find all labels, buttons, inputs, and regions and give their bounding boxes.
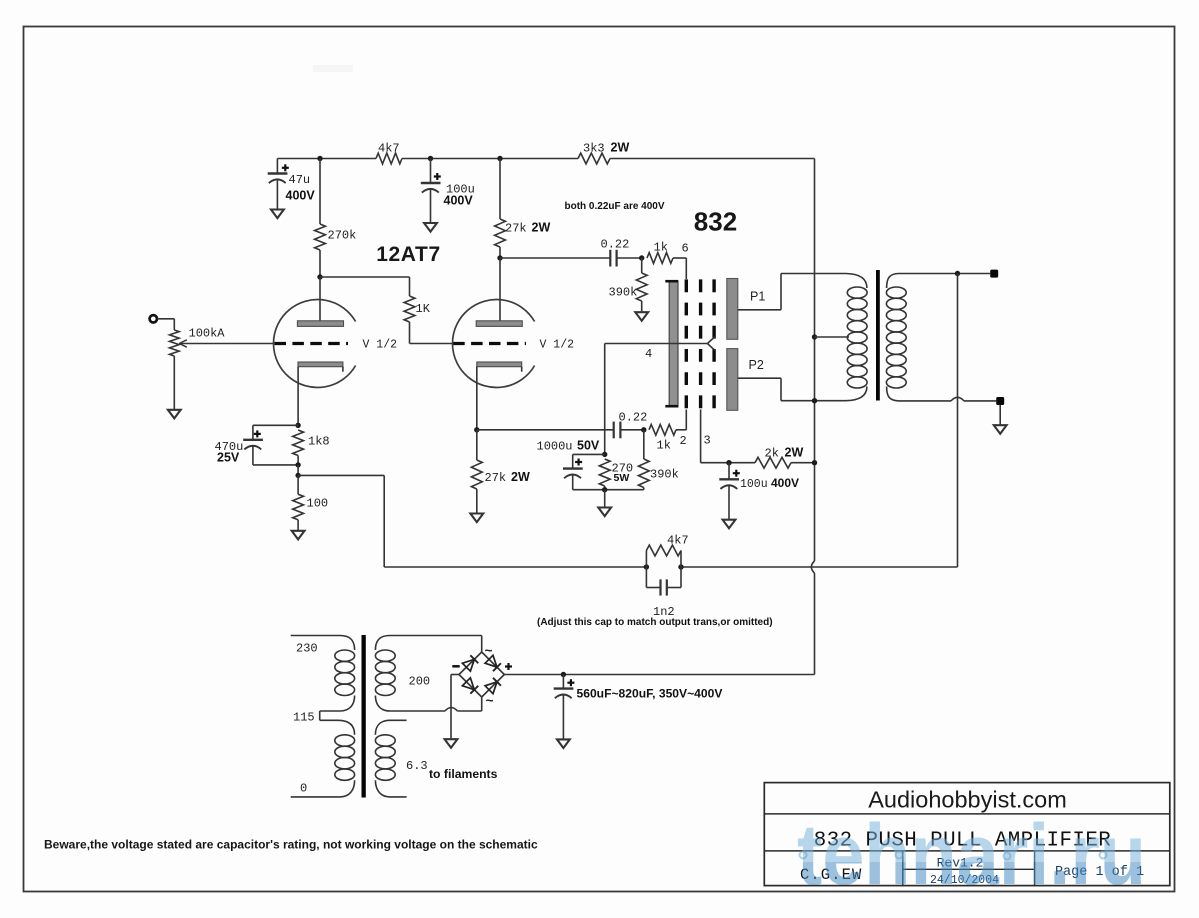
title C.G.EW	[800, 866, 862, 884]
node junction 1k8/470u bottom	[295, 462, 300, 467]
wire feedback tap to riser	[298, 474, 384, 476]
wire B+ vertical riser	[811, 159, 814, 675]
svg-text:to filaments: to filaments	[429, 767, 498, 781]
resistor 270k (V1a anode load)	[315, 159, 357, 278]
svg-text:V 1/2: V 1/2	[540, 338, 575, 351]
wire 0.22 to 1k junction (bottom)	[620, 429, 643, 431]
label 0	[300, 782, 307, 796]
label ac tilde top	[485, 645, 493, 660]
resistor 1k (grid stopper pin6)	[647, 240, 686, 263]
node junction 0.22/1k/390k (bottom)	[641, 427, 646, 432]
wire junction to 1K	[320, 276, 410, 278]
svg-text:~: ~	[485, 645, 493, 660]
wire feedback from secondary down	[957, 274, 959, 568]
svg-text:1k: 1k	[654, 240, 668, 254]
capacitor 1000u 50V (832 cathode bypass)	[563, 454, 605, 489]
power transformer primary winding 115-0	[335, 735, 355, 780]
power transformer primary winding 230-115	[335, 650, 355, 695]
node junction cathode bias top	[602, 452, 607, 457]
node junction 270k/anode/1K	[317, 274, 322, 279]
wire 1k8 to feedback node	[297, 465, 299, 476]
resistor 4k7 (B+ dropper)	[376, 142, 402, 164]
wire pin 4 (grid feed) with fork	[605, 337, 715, 351]
capacitor 1n2 (feedback comp)	[646, 567, 681, 619]
diode D2 (top-right arm)	[485, 655, 501, 671]
ground (100u)	[424, 223, 437, 232]
tube 832 beam plates column 3 (dashed)	[712, 279, 715, 409]
label V 1/2 (second half)	[540, 338, 575, 351]
diode D4 (bottom-right arm)	[485, 678, 501, 694]
note beware voltage rating	[44, 837, 538, 851]
wire feedback riser down	[383, 475, 385, 567]
svg-text:390k: 390k	[650, 468, 679, 482]
output transformer secondary winding	[886, 274, 906, 401]
ground (100 resistor)	[292, 531, 305, 540]
label minus	[452, 665, 459, 668]
svg-text:5W: 5W	[614, 472, 630, 484]
capacitor 0.22 (top coupling)	[601, 237, 630, 266]
power transformer primary bottom lead	[291, 780, 355, 797]
note both 0.22uF are 400V	[565, 201, 665, 212]
ground (screen cap)	[723, 520, 736, 529]
svg-text:100: 100	[307, 497, 329, 511]
wire input to pot	[157, 319, 174, 330]
node junction feedback tap	[295, 473, 300, 478]
ground (reservoir cap)	[557, 739, 570, 748]
input terminal	[150, 315, 157, 322]
wire center tap	[815, 336, 850, 338]
title Audiohobbyist.com	[868, 787, 1067, 813]
tube V1a envelope (12AT7 first half)	[273, 299, 355, 387]
power transformer filament winding 6.3V	[375, 735, 395, 780]
power transformer HT secondary top lead	[375, 636, 481, 651]
svg-text:(Adjust this cap to match outp: (Adjust this cap to match output trans,o…	[537, 617, 773, 628]
resistor 2k 2W (screen feed)	[755, 445, 815, 468]
node junction screen feed/B+	[812, 460, 817, 465]
resistor 4k7 (feedback)	[646, 534, 688, 567]
svg-text:1k8: 1k8	[308, 435, 330, 449]
diode D3 (left-bottom arm)	[462, 678, 478, 694]
wire B+ rail segment 1	[277, 158, 376, 160]
diode D1 (left-top arm)	[462, 655, 478, 671]
label plus (bridge)	[505, 663, 512, 670]
output transformer primary winding	[846, 274, 867, 401]
label to filaments	[429, 767, 498, 781]
svg-text:230: 230	[296, 642, 318, 656]
title Rev1.2	[937, 856, 984, 871]
resistor 390k (upper grid leak)	[609, 258, 648, 312]
ground (47u)	[271, 210, 284, 219]
wire bridge minus to ground	[451, 675, 459, 740]
svg-text:2W: 2W	[611, 141, 630, 155]
svg-text:0.22: 0.22	[619, 410, 648, 424]
svg-text:2W: 2W	[511, 470, 530, 484]
resistor 1K (coupling to V1b grid)	[404, 277, 431, 344]
svg-text:1000u: 1000u	[537, 440, 573, 454]
potentiometer 100kA (volume)	[170, 327, 275, 357]
svg-text:2: 2	[680, 434, 687, 448]
svg-text:200: 200	[409, 674, 431, 688]
label pin 2	[680, 434, 687, 448]
title block frame	[764, 783, 1170, 886]
svg-text:832: 832	[694, 207, 737, 237]
svg-text:4: 4	[645, 347, 652, 361]
svg-text:0: 0	[300, 782, 307, 796]
power transformer HT secondary bottom lead (with hop)	[375, 696, 481, 712]
svg-text:Beware,the voltage stated are: Beware,the voltage stated are capacitor'…	[44, 837, 538, 851]
label pin 6	[682, 241, 689, 255]
wire secondary bottom to terminal (with hop)	[899, 397, 997, 401]
svg-text:560uF~820uF, 350V~400V: 560uF~820uF, 350V~400V	[577, 687, 723, 701]
label V 1/2 (first half)	[363, 338, 398, 351]
tube V1b envelope (12AT7 second half)	[452, 299, 534, 387]
bridge rectifier diamond	[459, 652, 504, 697]
note adjust cap	[537, 617, 773, 628]
label 115	[293, 711, 315, 725]
svg-text:12AT7: 12AT7	[376, 243, 440, 266]
capacitor 100u 400V (second filter)	[421, 159, 475, 224]
wire to 832 pin 2	[685, 410, 687, 430]
power transformer filament bottom lead	[375, 780, 406, 797]
label 6.3	[406, 759, 428, 773]
node junction 27k/anode/0.22	[497, 255, 502, 260]
svg-text:400V: 400V	[771, 476, 799, 490]
wire HT to bridge top	[481, 636, 483, 653]
svg-text:270k: 270k	[328, 229, 357, 243]
output terminal bottom	[996, 397, 1004, 405]
tube V1a grid (dashed)	[275, 342, 349, 345]
node junction 0.22/1k/390k	[639, 255, 644, 260]
ground (pot)	[168, 410, 181, 419]
label 230	[296, 642, 318, 656]
wire B+ rail segment 3	[610, 158, 815, 160]
label 1000u 50V	[537, 439, 600, 454]
wire B+ rail segment 2	[402, 158, 578, 160]
node junction feedback right	[678, 564, 683, 569]
wire 832 cathode drop (pin 4 node down)	[604, 344, 606, 455]
capacitor 47u 400V	[268, 159, 316, 210]
tube V1a anode plate	[297, 321, 343, 327]
svg-text:4k7: 4k7	[378, 142, 400, 156]
svg-text:4k7: 4k7	[667, 534, 689, 548]
svg-text:both 0.22uF are 400V: both 0.22uF are 400V	[565, 201, 665, 212]
wire feedback horizontal line	[384, 566, 957, 568]
title Page 1 of 1	[1055, 865, 1144, 880]
label 12AT7	[376, 243, 440, 266]
ground (832 cathode)	[598, 508, 611, 517]
wire bridge bottom to winding	[481, 697, 483, 711]
svg-text:390k: 390k	[609, 286, 638, 300]
svg-text:27k: 27k	[485, 471, 507, 485]
svg-text:3: 3	[704, 434, 711, 448]
resistor 27k 2W (V1b cathode)	[471, 430, 530, 514]
wire terminal to ground	[999, 405, 1001, 425]
ground (speaker return)	[994, 425, 1007, 434]
node junction feedback left	[644, 564, 649, 569]
wire anode V1b	[499, 258, 501, 321]
tube V1b anode plate	[476, 321, 522, 327]
label pin 4	[645, 347, 652, 361]
node junction secondary/feedback	[955, 271, 960, 276]
svg-text:27k: 27k	[505, 222, 527, 236]
label P2	[749, 358, 764, 372]
node junction P2/coil bottom	[812, 398, 817, 403]
wire 27k junction to 0.22 cap	[500, 257, 610, 259]
node junction 100u screen cap	[726, 460, 731, 465]
ground (bridge minus)	[445, 739, 458, 748]
node junction center tap	[812, 334, 817, 339]
wire V1a cathode down	[297, 367, 299, 426]
capacitor 100u 400V (screen decoupling)	[719, 463, 799, 520]
label P1	[750, 289, 765, 303]
watermark tehnari.ru	[797, 807, 1146, 903]
node junction cathode bias bottom	[602, 487, 607, 492]
power transformer HT secondary winding 200V	[375, 650, 395, 695]
wire 1K to V1b grid	[410, 343, 453, 345]
power transformer primary top lead	[291, 636, 355, 651]
node junction reservoir cap	[561, 672, 566, 677]
wire anode V1a to junction	[319, 277, 321, 321]
svg-text:0.22: 0.22	[601, 237, 630, 251]
svg-text:P1: P1	[750, 289, 765, 303]
wire 0.22 to 1k junction	[617, 257, 642, 259]
wire B+ output from bridge	[504, 674, 814, 676]
node junction rail/27k	[497, 156, 502, 161]
tube 832 screen grid column 2 (dashed)	[699, 279, 702, 409]
svg-text:6: 6	[682, 241, 689, 255]
wire to 832 pin 6	[685, 258, 687, 279]
svg-text:6.3: 6.3	[406, 759, 428, 773]
wire V1b cathode down	[476, 367, 478, 430]
svg-text:400V: 400V	[444, 194, 474, 208]
resistor 3k3 2W (B+ dropper to output stage)	[578, 141, 629, 164]
wire pot to ground	[173, 356, 175, 410]
label 200	[409, 674, 431, 688]
title date 24/10/2004	[930, 874, 999, 887]
wire cathode to 0.22 cap	[477, 429, 614, 431]
resistor 390k (lower grid leak)	[605, 430, 679, 490]
faint smudge artifact top-left	[313, 65, 353, 72]
tube 832 screen grid column 1 (dashed)	[685, 279, 688, 409]
svg-text:25V: 25V	[217, 451, 240, 465]
wire P1 to output transformer	[738, 274, 846, 310]
svg-text:115: 115	[293, 711, 315, 725]
svg-text:1K: 1K	[416, 302, 431, 316]
resistor 1k (grid stopper pin2)	[649, 424, 686, 452]
ground (27k cathode)	[470, 514, 483, 523]
tube 832 plate P2	[727, 349, 738, 411]
wire 832 pin 3 (screen) down	[701, 409, 755, 462]
svg-text:V 1/2: V 1/2	[363, 338, 398, 351]
node junction rail/100u	[428, 156, 433, 161]
svg-text:1k: 1k	[657, 439, 671, 453]
ground (upper 390k)	[635, 312, 648, 321]
node junction cathode/470u/1k8	[295, 423, 300, 428]
tube V1a cathode plate	[298, 362, 343, 372]
tube V1b cathode plate	[477, 362, 522, 372]
title 832 PUSH PULL AMPLIFIER	[814, 830, 1111, 853]
svg-text:400V: 400V	[286, 189, 316, 203]
svg-text:50V: 50V	[577, 439, 600, 453]
power transformer core	[362, 635, 366, 798]
capacitor 470u 25V (cathode bypass)	[215, 425, 299, 465]
resistor 27k 2W (V1b anode load)	[495, 159, 551, 259]
label pin 3	[704, 434, 711, 448]
resistor 100 (feedback shunt)	[293, 475, 328, 530]
tube 832 control grid bar G1	[665, 281, 678, 407]
node junction V1b cathode	[474, 427, 479, 432]
wire to ground (832 cathode)	[604, 490, 606, 508]
tube V1b grid (dashed)	[453, 342, 526, 345]
svg-text:2W: 2W	[532, 221, 551, 235]
node junction rail/270k	[317, 156, 322, 161]
label ac tilde bottom	[486, 695, 494, 710]
label 832	[694, 207, 737, 237]
resistor 270 5W (832 cathode bias)	[599, 459, 633, 490]
power transformer 115 tap	[320, 696, 355, 735]
svg-text:P2: P2	[749, 358, 764, 372]
svg-text:100u: 100u	[740, 478, 768, 491]
capacitor 0.22 (bottom coupling)	[614, 410, 648, 438]
wire secondary top to output terminal	[899, 273, 991, 275]
output terminal top	[990, 270, 998, 278]
svg-text:~: ~	[486, 695, 494, 710]
tube 832 plate P1	[727, 279, 738, 340]
svg-text:3k3: 3k3	[583, 142, 605, 156]
svg-text:2k: 2k	[765, 446, 779, 460]
watermark hook marks	[800, 852, 1107, 860]
svg-text:100kA: 100kA	[189, 327, 226, 341]
output transformer core	[876, 270, 880, 401]
resistor 1k8 (V1a cathode bias)	[293, 430, 330, 465]
capacitor 560uF-820uF reservoir	[554, 675, 723, 740]
svg-text:2W: 2W	[785, 445, 804, 459]
power transformer filament winding top lead	[375, 720, 406, 735]
svg-text:47u: 47u	[289, 173, 311, 187]
wire P2 to output transformer	[738, 378, 846, 401]
